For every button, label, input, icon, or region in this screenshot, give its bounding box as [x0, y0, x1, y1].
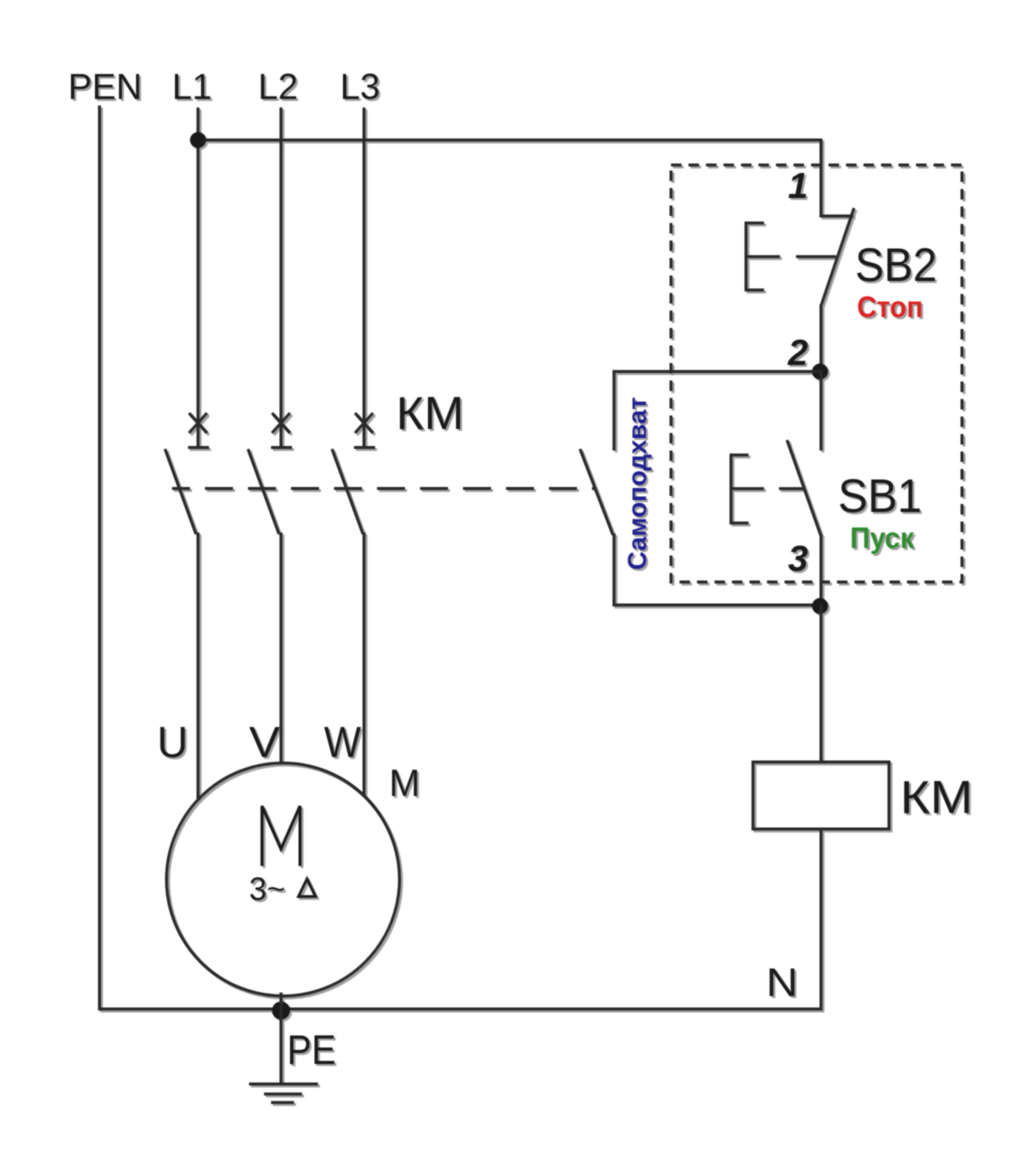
wire self-hold lower terminal [613, 535, 616, 605]
svg-text:L1: L1 [172, 66, 212, 107]
label Pusk [850, 522, 915, 555]
push-button SB2 actuator [746, 223, 836, 290]
svg-text:Стоп: Стоп [857, 291, 923, 324]
svg-text:3~: 3~ [249, 871, 285, 907]
svg-text:N: N [766, 961, 798, 1005]
contactor KM main contact pole 1 [165, 413, 209, 534]
node junction 2 [812, 364, 828, 380]
svg-text:U: U [157, 718, 188, 767]
label SB1 [838, 469, 922, 522]
wire KM coil to N bus [100, 829, 822, 1009]
svg-text:PE: PE [287, 1026, 336, 1073]
svg-text:2: 2 [787, 332, 808, 373]
label KM coil [900, 771, 973, 823]
svg-text:1: 1 [788, 165, 808, 206]
wire L3 vertical [363, 109, 366, 446]
net label L2 [258, 66, 298, 107]
svg-text:W: W [324, 718, 361, 767]
motor terminal label W [324, 718, 361, 767]
wire pole3 to motor W [363, 534, 366, 795]
svg-text:Самоподхват: Самоподхват [622, 397, 652, 570]
net label PE [287, 1026, 336, 1073]
wire pole1 to motor U [197, 534, 200, 799]
svg-text:КМ: КМ [900, 771, 973, 823]
svg-text:3: 3 [788, 538, 808, 579]
push-button SB1 normally-open contact [787, 372, 821, 607]
wire PEN vertical [98, 107, 101, 1009]
motor terminal label U [157, 718, 188, 767]
motor letter M [262, 806, 300, 866]
node junction motor to PE [272, 1002, 290, 1020]
svg-text:SB1: SB1 [838, 469, 922, 522]
ground symbol [249, 1084, 318, 1103]
wire L1 vertical [197, 109, 200, 446]
net label L1 [172, 66, 212, 107]
motor label delta [299, 879, 316, 897]
motor label 3~ [249, 871, 285, 907]
svg-text:М: М [389, 763, 420, 805]
contactor KM auxiliary self-hold contact [580, 449, 613, 535]
svg-text:V: V [249, 718, 281, 767]
dashed enclosure of push-button station [671, 165, 962, 582]
net label N [766, 961, 798, 1005]
wire top bus from L1 to control circuit [198, 140, 821, 216]
motor label M [389, 763, 420, 805]
wire L2 vertical [280, 109, 283, 446]
wire motor to ground [280, 994, 283, 1083]
pin number 1 [788, 165, 808, 206]
svg-text:L2: L2 [258, 66, 298, 107]
svg-text:SB2: SB2 [855, 238, 937, 291]
label Stop [857, 291, 923, 324]
label SB2 [855, 238, 937, 291]
net label L3 [340, 66, 380, 107]
contactor KM main contact pole 3 [332, 413, 375, 534]
node junction 3 [812, 598, 828, 614]
svg-text:L3: L3 [340, 66, 380, 107]
label self-hold Samopodkhvat [622, 397, 652, 570]
wire node2 to self-hold branch [614, 370, 820, 373]
svg-text:PEN: PEN [68, 66, 142, 107]
wire pole2 to motor V [280, 534, 283, 763]
svg-text:КМ: КМ [396, 387, 464, 439]
wire self-hold upper terminal [613, 372, 616, 450]
pin number 2 [787, 332, 808, 373]
push-button SB1 actuator [731, 455, 803, 523]
push-button SB2 normally-closed contact [821, 208, 854, 371]
motor terminal label V [249, 718, 281, 767]
contactor coil KM [753, 762, 889, 829]
pin number 3 [788, 538, 808, 579]
wire node3 to KM coil [820, 606, 823, 762]
svg-text:Пуск: Пуск [850, 522, 915, 555]
contactor KM main contact pole 2 [248, 413, 292, 534]
motor M circle [167, 763, 400, 996]
net label PEN [68, 66, 142, 107]
mechanical link dashed line of KM [172, 487, 594, 490]
wire self-hold branch to node3 [614, 604, 820, 607]
label KM main contacts [396, 387, 464, 439]
node junction on L1 [190, 132, 206, 148]
